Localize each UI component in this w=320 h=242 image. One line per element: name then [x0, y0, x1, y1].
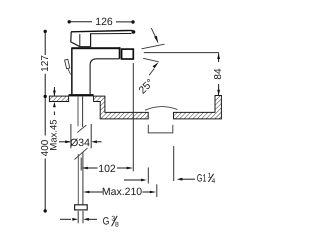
dim 127 — [44, 30, 47, 33]
dim 400 — [44, 95, 47, 98]
pipe break mark upper — [77, 125, 86, 133]
flag marker on body — [65, 59, 70, 68]
svg-text:102: 102 — [98, 163, 116, 175]
svg-text:127: 127 — [40, 55, 51, 72]
angle leader lower with text — [149, 69, 154, 76]
faucet lever blade — [71, 30, 133, 31]
svg-text:84: 84 — [213, 68, 224, 80]
svg-text:Max.45: Max.45 — [49, 119, 60, 150]
svg-text:8: 8 — [115, 221, 119, 228]
deck right piece with upright — [174, 96, 222, 119]
body inner right edge with fillet — [90, 59, 97, 95]
dim 102 — [80, 158, 82, 171]
svg-text:4: 4 — [212, 178, 216, 185]
svg-text:Ø34: Ø34 — [70, 137, 90, 149]
base flange — [69, 94, 94, 96]
supply pipe left — [77, 96, 79, 126]
dim G 3/8 — [77, 211, 79, 223]
dim Max.210 — [83, 191, 90, 194]
svg-text:G1: G1 — [197, 173, 207, 185]
dim 126 — [68, 20, 71, 23]
basin dome arc — [145, 107, 178, 111]
spout bottom edge — [97, 58, 120, 60]
svg-text:G: G — [103, 216, 110, 228]
faucet lever hub — [71, 32, 91, 47]
dim dia34 — [70, 124, 72, 148]
angle 25 deg rays — [142, 44, 165, 49]
deck right Z-section — [94, 96, 149, 119]
dim G 1 1/4 — [124, 179, 142, 181]
supply nut — [75, 205, 88, 210]
svg-text:126: 126 — [95, 16, 113, 28]
spout right edge — [119, 47, 121, 59]
supply pipe right — [82, 96, 84, 127]
aerator box — [122, 49, 134, 59]
pipe break mark lower — [75, 148, 88, 160]
angle leader upper — [151, 28, 156, 37]
svg-text:Max.210: Max.210 — [102, 186, 142, 198]
deck left slab — [49, 96, 68, 101]
dim Max.45 — [53, 87, 55, 96]
body left edge — [71, 48, 73, 94]
faucet body top edge — [71, 47, 120, 49]
drain outline — [148, 125, 173, 133]
dim 84 — [144, 52, 219, 54]
